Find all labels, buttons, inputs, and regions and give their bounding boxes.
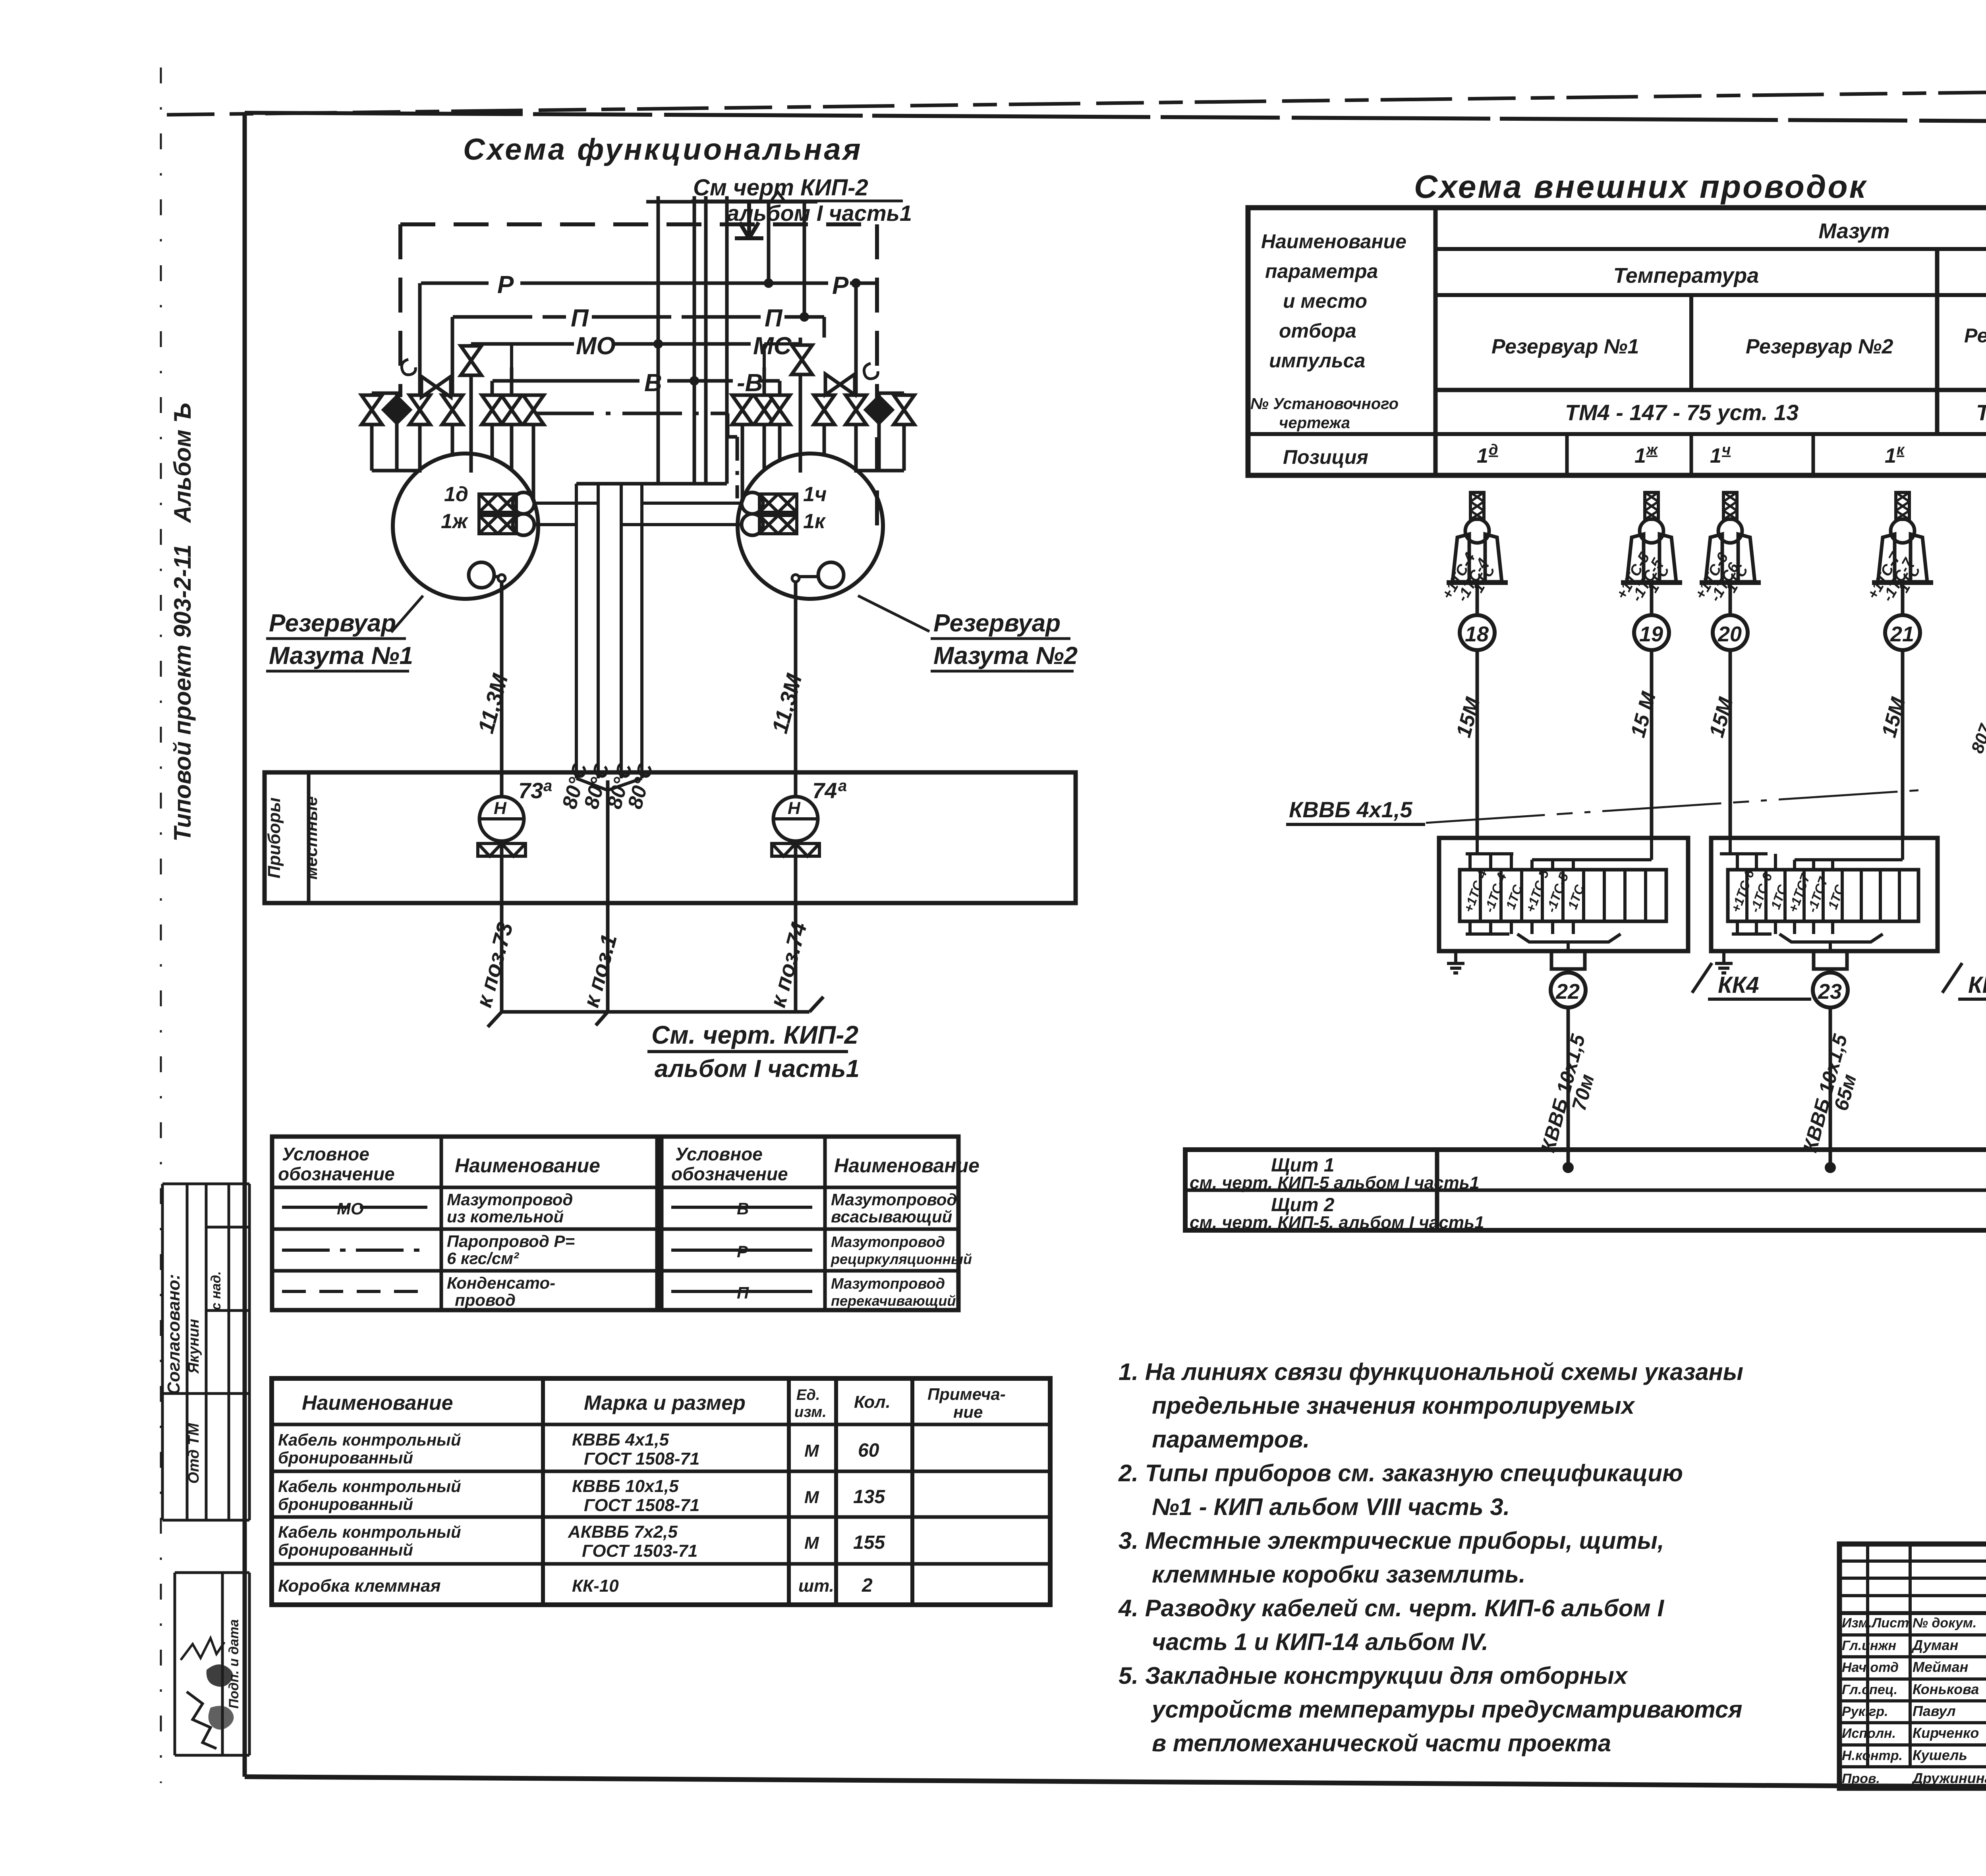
svg-text:Наименование: Наименование [302, 1392, 453, 1415]
valve row left [361, 395, 382, 425]
pipe paroprovod dash-dot [534, 412, 728, 415]
svg-text:Схема внешних проводок: Схема внешних проводок [1414, 169, 1867, 205]
КК5 label [1942, 963, 1962, 993]
svg-text:-В: -В [737, 369, 763, 397]
svg-text:Кабель контрольный: Кабель контрольный [278, 1430, 461, 1449]
svg-text:Пров.: Пров. [1842, 1771, 1880, 1786]
pipe В line [493, 379, 780, 383]
tank2 level sensor [818, 562, 844, 588]
svg-text:21: 21 [1890, 622, 1914, 646]
svg-text:и место: и место [1283, 290, 1367, 312]
hook symbol right [864, 363, 878, 379]
svg-text:Мазутопровод: Мазутопровод [831, 1190, 957, 1209]
svg-text:18: 18 [1465, 622, 1489, 646]
svg-text:ч: ч [1722, 442, 1731, 458]
svg-text:Кабель контрольный: Кабель контрольный [278, 1523, 461, 1541]
svg-text:из котельной: из котельной [447, 1207, 564, 1226]
terminal box КК4 [1439, 838, 1811, 1168]
NOTES [1118, 1359, 1743, 1756]
svg-text:Мазут: Мазут [1818, 219, 1889, 243]
svg-text:П: П [737, 1283, 749, 1302]
svg-text:155: 155 [853, 1532, 885, 1553]
svg-text:1д: 1д [444, 483, 468, 506]
band Приборы местные [265, 772, 1076, 903]
svg-text:Н: Н [788, 799, 801, 818]
svg-text:Коробка клеммная: Коробка клеммная [278, 1576, 441, 1596]
svg-text:рециркуляционный: рециркуляционный [831, 1251, 972, 1267]
svg-text:№ Установочного: № Установочного [1250, 395, 1399, 413]
terminal box КК5 [1711, 838, 1986, 1168]
svg-text:1ж: 1ж [441, 510, 469, 533]
svg-text:1: 1 [1885, 444, 1896, 467]
svg-text:альбом I часть1: альбом I часть1 [727, 201, 912, 226]
svg-text:бронированный: бронированный [278, 1540, 413, 1559]
cable circle 18 [1460, 615, 1495, 650]
svg-text:устройств температуры предус: устройств температуры предусматриваются [1151, 1696, 1743, 1723]
svg-text:60: 60 [858, 1440, 879, 1461]
svg-text:обозначение: обозначение [278, 1164, 395, 1184]
tank1 level sensor [469, 562, 494, 588]
КК4 label [1692, 963, 1712, 993]
svg-text:Кол.: Кол. [854, 1392, 891, 1412]
svg-text:Резервуар: Резервуар [269, 610, 396, 637]
sensor ТС-7 [1864, 492, 1933, 838]
tank2 coil 1к [742, 514, 797, 535]
svg-text:1ч: 1ч [803, 483, 827, 506]
horizontal valve right [825, 374, 855, 395]
svg-text:Р: Р [737, 1242, 748, 1261]
bottom bracket to КИП-2 [488, 997, 823, 1027]
pipe МО line [471, 342, 800, 346]
svg-text:ТМ4 - 118 - 74: ТМ4 - 118 - 74 [1976, 400, 1986, 425]
svg-text:Типовой проект 903-2-11: Типовой проект 903-2-11 [169, 544, 196, 842]
svg-text:д: д [1489, 442, 1498, 458]
svg-text:ГОСТ 1508-71: ГОСТ 1508-71 [584, 1449, 699, 1469]
svg-text:Р: Р [832, 272, 849, 299]
temp sensors [0, 0, 0, 0]
svg-text:перекачивающий: перекачивающий [831, 1293, 956, 1309]
svg-text:4. Разводку кабелей см. че: 4. Разводку кабелей см. черт. КИП-6 альб… [1118, 1595, 1664, 1621]
svg-text:См. черт. КИП-2: См. черт. КИП-2 [651, 1021, 858, 1049]
coil sense wires to mid bundle [534, 484, 742, 778]
svg-text:№1 - КИП альбом VIII час: №1 - КИП альбом VIII часть 3. [1152, 1494, 1510, 1520]
ground КК5 [1722, 951, 1725, 958]
svg-text:Наименование: Наименование [1261, 230, 1406, 253]
svg-text:Температура: Температура [1613, 264, 1759, 288]
svg-text:Условное: Условное [282, 1144, 369, 1164]
parameter table [1248, 208, 1986, 475]
svg-text:КК4: КК4 [1718, 972, 1759, 998]
svg-text:Мазутопровод: Мазутопровод [831, 1234, 945, 1251]
svg-text:Изм.Лист: Изм.Лист [1842, 1615, 1909, 1631]
svg-text:Мазута №2: Мазута №2 [933, 642, 1078, 670]
tank 2 circle [738, 454, 883, 599]
svg-text:Р: Р [497, 271, 514, 299]
svg-text:74: 74 [812, 778, 837, 803]
svg-text:обозначение: обозначение [671, 1164, 788, 1184]
valve row right [732, 395, 753, 425]
svg-text:П: П [765, 305, 783, 332]
mid bundle to КИП-2 bracket [576, 192, 817, 484]
svg-text:П: П [571, 305, 589, 332]
svg-text:Нач.отд: Нач.отд [1842, 1660, 1899, 1675]
filter diamond left [381, 394, 412, 425]
pipe МО out dashed rectangle [400, 224, 877, 528]
svg-text:ГОСТ 1503-71: ГОСТ 1503-71 [582, 1541, 697, 1561]
LEGEND TABLE RIGHT [661, 1137, 979, 1310]
svg-text:ТМ4 - 147 - 75 уст. 13: ТМ4 - 147 - 75 уст. 13 [1565, 400, 1799, 425]
svg-text:альбом I часть1: альбом I часть1 [655, 1055, 860, 1083]
svg-text:ж: ж [1646, 442, 1658, 458]
svg-text:6 кгс/см²: 6 кгс/см² [447, 1249, 519, 1268]
svg-text:изм.: изм. [794, 1404, 827, 1421]
svg-text:73: 73 [518, 778, 543, 803]
svg-text:АКВВБ 7х2,5: АКВВБ 7х2,5 [568, 1522, 678, 1542]
svg-text:Конденсато-: Конденсато- [447, 1274, 555, 1292]
svg-text:Мазута №1: Мазута №1 [269, 642, 413, 670]
svg-text:часть 1 и КИП-14 альбом I: часть 1 и КИП-14 альбом IV. [1152, 1629, 1488, 1655]
TITLE BLOCK [1839, 1544, 1986, 1789]
svg-text:1: 1 [1710, 444, 1721, 467]
svg-text:бронированный: бронированный [278, 1448, 413, 1467]
svg-text:Думан: Думан [1911, 1637, 1959, 1653]
shield block Щит1/Щит2 [1185, 1150, 1986, 1232]
svg-text:а: а [543, 777, 552, 795]
svg-text:Кабель контрольный: Кабель контрольный [278, 1477, 461, 1496]
svg-text:см. черт. КИП-5 альбом I част: см. черт. КИП-5 альбом I часть1 [1190, 1173, 1479, 1193]
svg-text:Паропровод Р=: Паропровод Р= [447, 1232, 575, 1251]
svg-text:Отд ТМ: Отд ТМ [185, 1423, 202, 1484]
tank2 label Резервуар Мазута №2 [858, 596, 929, 631]
tank2 coil 1ч [742, 492, 797, 514]
svg-text:Павул: Павул [1913, 1703, 1956, 1719]
svg-text:Н: Н [494, 799, 507, 818]
svg-text:Кирченко: Кирченко [1913, 1725, 1979, 1741]
pipe П line [453, 315, 824, 319]
svg-text:Альбом Ъ: Альбом Ъ [169, 403, 196, 523]
svg-text:2. Типы приборов см. заказну: 2. Типы приборов см. заказную спецификац… [1118, 1460, 1683, 1486]
level wires down [502, 582, 796, 1012]
svg-text:Якунин: Якунин [185, 1319, 202, 1374]
svg-text:Резервуар: Резервуар [933, 610, 1061, 637]
svg-text:Схема функциональная: Схема функциональная [463, 133, 863, 166]
svg-text:2: 2 [862, 1575, 873, 1596]
svg-text:параметров.: параметров. [1152, 1426, 1310, 1453]
svg-text:КК-10: КК-10 [572, 1576, 619, 1596]
svg-text:1. На линиях связи функционал: 1. На линиях связи функциональной схемы … [1119, 1359, 1743, 1385]
sensor ТС-6 [1692, 492, 1761, 838]
LEGEND TABLE LEFT [272, 1137, 657, 1310]
svg-text:Конькова: Конькова [1913, 1681, 1979, 1697]
instrument 73а [479, 797, 524, 841]
hook symbol left [402, 359, 415, 375]
cable circle 19 [1634, 615, 1669, 650]
svg-text:Мазутопровод: Мазутопровод [831, 1276, 945, 1292]
svg-text:Гл.спец.: Гл.спец. [1842, 1682, 1897, 1697]
svg-text:5. Закладные конструкции дл: 5. Закладные конструкции для отборных [1119, 1662, 1629, 1689]
sensor ТС-4 [1439, 492, 1508, 838]
svg-text:Резервуар №1: Резервуар №1 [1491, 335, 1639, 358]
svg-text:чертежа: чертежа [1279, 414, 1350, 432]
svg-text:Позиция: Позиция [1283, 446, 1368, 468]
svg-text:Приборы: Приборы [265, 797, 284, 878]
cable circle 20 [1713, 615, 1748, 650]
svg-text:Резервуар: Резервуар [1964, 324, 1986, 347]
svg-text:Резервуар №2: Резервуар №2 [1746, 335, 1893, 358]
svg-text:импульса: импульса [1269, 349, 1365, 372]
svg-text:Условное: Условное [675, 1144, 763, 1164]
svg-text:Дружинина: Дружинина [1911, 1770, 1986, 1786]
level sensor 1 [1967, 500, 1986, 1209]
svg-text:отбора: отбора [1279, 320, 1356, 342]
svg-text:см. черт. КИП-5, альбом I час: см. черт. КИП-5, альбом I часть1 [1190, 1213, 1484, 1232]
svg-text:№ докум.: № докум. [1913, 1615, 1976, 1631]
tank1 coil 1д [479, 492, 534, 514]
svg-text:Подп. и дата: Подп. и дата [226, 1619, 241, 1708]
FUNCTIONAL SCHEMA [265, 133, 1078, 1083]
svg-text:1: 1 [1634, 444, 1646, 467]
svg-text:Кушель: Кушель [1913, 1747, 1967, 1763]
tank1 coil 1ж [479, 514, 534, 535]
svg-text:1: 1 [1477, 444, 1488, 467]
svg-text:Примеча-: Примеча- [927, 1385, 1006, 1403]
filter diamond right [863, 394, 894, 425]
svg-text:МС: МС [753, 332, 792, 360]
svg-text:всасывающий: всасывающий [831, 1207, 952, 1226]
svg-text:В: В [737, 1199, 749, 1218]
tank1 label Резервуар Мазута №1 [391, 596, 423, 632]
svg-text:Гл.инжн: Гл.инжн [1842, 1638, 1896, 1653]
svg-text:с над.: с над. [209, 1271, 224, 1310]
svg-text:Наименование: Наименование [834, 1154, 979, 1177]
svg-text:к: к [1897, 442, 1905, 458]
svg-text:провод: провод [455, 1291, 516, 1309]
svg-text:1к: 1к [803, 510, 826, 533]
tank2 pipe drops [742, 344, 904, 501]
valve П high left [461, 346, 481, 375]
svg-text:Исполн.: Исполн. [1842, 1726, 1896, 1741]
svg-text:22: 22 [1555, 980, 1580, 1004]
svg-text:Ед.: Ед. [796, 1387, 820, 1403]
svg-text:135: 135 [853, 1486, 885, 1507]
svg-text:Мейман: Мейман [1913, 1659, 1969, 1675]
svg-text:КВВБ 4х1,5: КВВБ 4х1,5 [572, 1430, 669, 1449]
CABLE TABLE [272, 1378, 1050, 1605]
svg-text:Согласовано:: Согласовано: [164, 1274, 184, 1395]
instrument 74а [773, 797, 818, 841]
svg-text:М: М [804, 1488, 819, 1507]
svg-text:а: а [838, 777, 847, 795]
svg-text:местные: местные [301, 796, 321, 880]
svg-text:МО: МО [337, 1199, 364, 1218]
cable circle 21 [1885, 615, 1920, 650]
svg-text:3. Местные электрические: 3. Местные электрические приборы, щиты, [1119, 1527, 1664, 1554]
svg-text:Мазутопровод: Мазутопровод [447, 1190, 573, 1209]
LEFT MARGIN [162, 403, 249, 1755]
svg-text:Наименование: Наименование [455, 1154, 600, 1177]
svg-text:Н.контр.: Н.контр. [1842, 1748, 1903, 1763]
svg-text:М: М [804, 1533, 819, 1553]
svg-text:шт.: шт. [798, 1576, 834, 1596]
svg-text:Марка и размер: Марка и размер [584, 1392, 746, 1415]
svg-text:КВВБ 10х1,5: КВВБ 10х1,5 [572, 1476, 679, 1496]
tank 1 circle [393, 454, 538, 599]
svg-text:23: 23 [1818, 980, 1842, 1004]
svg-text:бронированный: бронированный [278, 1495, 413, 1513]
horizontal valve left [421, 376, 451, 397]
svg-text:20: 20 [1717, 622, 1742, 646]
junction dots [653, 278, 861, 386]
svg-text:Рук.гр.: Рук.гр. [1842, 1704, 1888, 1719]
svg-text:ГОСТ 1508-71: ГОСТ 1508-71 [584, 1496, 699, 1515]
svg-text:ние: ние [953, 1403, 983, 1421]
cable circle 22 [1551, 973, 1586, 1007]
svg-text:КК5: КК5 [1968, 972, 1986, 998]
node cable23 [1825, 1162, 1836, 1173]
cable circle 23 [1813, 973, 1848, 1007]
valve МС high right [792, 345, 812, 374]
svg-text:параметра: параметра [1265, 260, 1378, 282]
sensor ТС-5 [1613, 492, 1682, 838]
svg-text:МО: МО [576, 332, 616, 360]
tank1 pipe drops [372, 344, 533, 501]
pipe Р line [421, 282, 877, 285]
svg-text:клеммные коробки заземлить.: клеммные коробки заземлить. [1152, 1561, 1526, 1588]
ground КК4 [1454, 951, 1457, 958]
svg-text:М: М [804, 1441, 819, 1461]
node cable22 [1563, 1162, 1574, 1173]
svg-text:предельные значения контрол: предельные значения контролируемых [1152, 1392, 1636, 1419]
svg-text:КВВБ 4х1,5: КВВБ 4х1,5 [1289, 797, 1413, 822]
svg-text:19: 19 [1639, 622, 1663, 646]
svg-text:в тепломеханической части п: в тепломеханической части проекта [1152, 1730, 1611, 1756]
EXTERNAL WIRING SCHEMA [1248, 169, 1986, 824]
